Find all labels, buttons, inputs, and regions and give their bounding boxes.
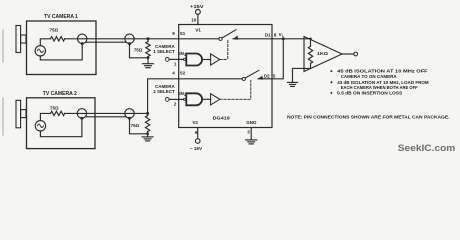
svg-text:S2: S2 [180,70,186,75]
label 75Ω camera 1 termination [134,48,143,53]
label 75Ω camera 2 termination [131,123,140,128]
note bullet 2 [330,80,428,90]
pin label V1 [195,28,201,33]
svg-text:EACH CAMERA WHEN BOTH ARE OFF: EACH CAMERA WHEN BOTH ARE OFF [341,85,418,90]
svg-text:3: 3 [247,129,250,134]
label 75Ω camera 2 internal [50,106,59,111]
svg-text:75Ω: 75Ω [131,123,140,128]
svg-text:V2: V2 [192,120,198,125]
svg-text:DG419: DG419 [213,115,231,120]
node CAMERA 1 SELECT terminal [153,44,175,61]
resistor 75Ω camera 2 internal [51,111,65,115]
node +15V supply terminal [190,4,205,14]
svg-text:45 dB ISOLATION AT 10 MHz OFF: 45 dB ISOLATION AT 10 MHz OFF [337,69,428,74]
wire select 1 to IN1 [169,58,183,60]
label 75Ω camera 1 internal [50,28,59,33]
wire camera 2 return path [40,118,82,137]
AC source camera 1 [35,46,45,56]
pin 5 [273,73,276,78]
svg-text:D1: D1 [265,32,271,37]
wire V- supply pin 6 [197,128,199,139]
svg-text:D2: D2 [264,73,270,78]
svg-text:TV CAMERA 2: TV CAMERA 2 [43,91,77,97]
svg-text:1KΩ: 1KΩ [317,51,328,56]
wire coax second conductor camera 1 [86,41,127,43]
pin label GND [246,120,257,125]
pin 6 [195,130,198,135]
wire V+ supply to pin 10 [197,14,199,24]
ground camera 1 termination [143,58,154,68]
wire amplifier output [342,53,354,55]
wire S1 input [148,38,219,40]
junction camera 1 termination node [147,37,150,40]
svg-text:SeekIC.com: SeekIC.com [398,142,456,153]
switch SW1 arm [222,30,236,38]
connector camera 2 jack [125,109,134,118]
gate U1a driver [186,54,202,66]
pin label D2 [264,73,270,78]
junction camera 2 termination node [146,112,149,115]
svg-text:8: 8 [274,32,277,37]
buffer amplifier driver 1 [211,54,220,65]
svg-text:CAMERA: CAMERA [155,84,175,89]
switch SW2 arm [245,70,259,78]
svg-text:75Ω: 75Ω [50,28,59,33]
note package [287,114,450,119]
svg-text:CAMERA TO ON CAMERA: CAMERA TO ON CAMERA [341,74,398,79]
svg-text:TV CAMERA 1: TV CAMERA 1 [44,14,78,20]
AC source camera 2 [35,121,45,131]
wire D2 output [258,39,283,79]
label 1KΩ [317,51,328,56]
pin label D1 [265,32,271,37]
junction camera 1 jack shield [128,42,131,45]
svg-text:+15V: +15V [190,4,205,9]
svg-text:9: 9 [172,31,175,36]
switch SW1 contact [219,37,222,40]
switch SW1 arrow [233,36,238,40]
junction termination 1 bottom node [147,56,150,59]
resistor 75Ω camera 1 termination [146,39,150,58]
pin 8 [274,32,277,37]
TV camera 2 enclosure box [16,98,95,149]
note bullet 1 [330,69,428,79]
wire GND pin 3 [250,128,252,140]
wire camera 2 source to resistor [40,113,50,120]
pin 4 [172,70,175,75]
pin label IN2 [179,91,186,97]
svg-text:10: 10 [191,18,197,23]
svg-text:NOTE: PIN CONNECTIONS SHOWN AR: NOTE: PIN CONNECTIONS SHOWN ARE FOR META… [287,114,450,119]
TV camera 1 enclosure box [16,21,96,75]
wire gate 2 to buffer 2 [203,98,211,100]
wire camera 1 source to resistor [40,39,50,46]
resistor 75Ω camera 2 termination [145,113,149,133]
ground load resistor [288,82,298,86]
gate U1b driver [186,93,202,105]
ground IC pin 3 [246,140,257,144]
junction termination 2 bottom node [146,132,149,135]
label TV CAMERA 1 [44,14,78,20]
svg-text:V: V [279,32,282,37]
switch SW2 contact [242,77,245,80]
wire camera 1 return path [40,44,82,60]
ground camera 2 termination [142,134,153,141]
watermark SeekIC.com [398,142,456,153]
note bullet 3 [330,91,402,96]
svg-text:1 SELECT: 1 SELECT [153,49,175,54]
wire camera 1 signal to connector [65,38,148,40]
wire termination 1 to jack shield [130,45,149,58]
svg-text:IN: IN [179,91,184,96]
node VL [279,32,285,40]
connector camera 1 jack [125,34,134,43]
pin label V2 [192,120,198,125]
svg-text:– 15V: – 15V [190,146,203,151]
svg-text:S1: S1 [180,31,186,36]
wire coax second conductor camera 2 [85,116,126,118]
svg-text:0.5 dB ON INSERTION LOSS: 0.5 dB ON INSERTION LOSS [337,91,402,96]
resistor 75Ω camera 1 internal [51,37,65,41]
switch SW2 arrow [258,76,263,80]
pin 10 [191,18,197,23]
wire S2 input riser [148,79,243,114]
pin 3 [247,129,250,134]
pin 9 [172,31,175,36]
junction camera 2 jack shield [128,117,131,120]
svg-text:75Ω: 75Ω [50,106,59,111]
svg-text:2: 2 [174,102,177,107]
svg-text:V1: V1 [195,28,201,33]
junction load resistor top [309,38,312,41]
op IC DG419 body [179,25,272,128]
wire load resistor to ground [293,68,311,82]
pin 1 [174,62,177,67]
pin label S2 [180,70,186,75]
resistor 1KΩ load [308,39,312,69]
inverter bubble driver 1 [183,58,185,60]
connector camera 1 plug [78,34,87,43]
svg-text:GND: GND [246,120,257,125]
svg-text:1: 1 [174,62,177,67]
buffer amplifier driver 2 [211,94,220,105]
wire D1 output [233,38,311,40]
pin 2 [174,102,177,107]
svg-text:2 SELECT: 2 SELECT [153,89,175,94]
svg-text:43 dB ISOLATION AT 10 MHz, LOA: 43 dB ISOLATION AT 10 MHz, LOAD FROM [337,80,429,85]
junction camera 2 plug shield [80,117,83,120]
node CAMERA 2 SELECT terminal [153,84,175,101]
connector camera 2 plug [77,109,86,118]
svg-text:5: 5 [273,73,276,78]
label TV CAMERA 2 [43,91,77,97]
op-amp video buffer [304,37,342,72]
wire termination 2 to jack shield [130,120,148,134]
wire gate 1 to buffer 1 [203,59,211,61]
wire select 2 to IN2 [169,98,183,100]
svg-text:4: 4 [172,70,175,75]
pin label S1 [180,31,186,36]
label DG419 [213,115,231,120]
pin label IN1 [179,51,186,57]
inverter bubble driver 2 [183,98,185,100]
dashed control line switch 1 [220,41,228,60]
junction camera 1 plug shield [81,42,84,45]
node output terminal [354,52,358,56]
svg-text:CAMERA: CAMERA [155,44,175,49]
node -15V supply terminal [190,139,203,151]
wire camera 2 signal to connector [65,112,148,114]
dashed control line switch 2 [220,80,251,99]
svg-text:IN: IN [179,51,184,56]
svg-text:75Ω: 75Ω [134,48,143,53]
